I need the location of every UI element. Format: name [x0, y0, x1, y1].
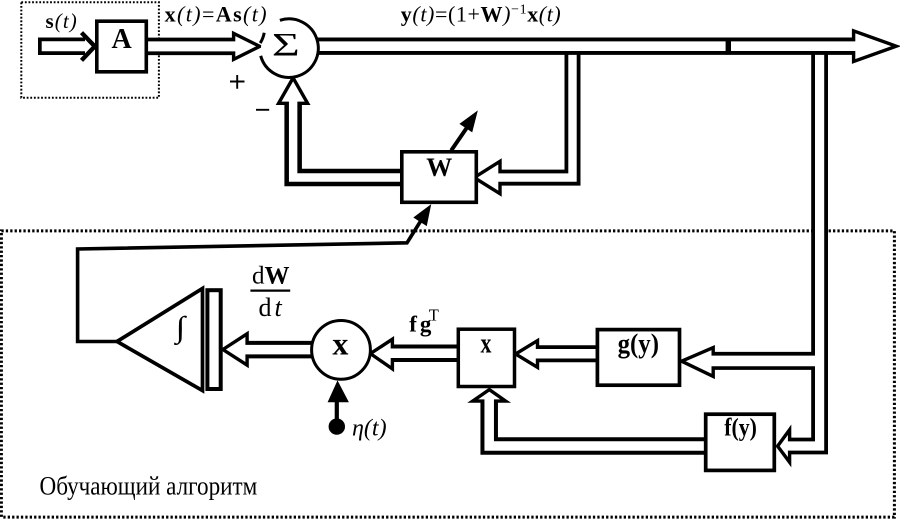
- svg-text:x: x: [481, 329, 492, 359]
- svg-text:η(t): η(t): [352, 416, 387, 442]
- thin line integrator to W: [78, 221, 421, 342]
- arrowhead main output right: [854, 31, 897, 62]
- wire x to multiplier band: [391, 345, 459, 363]
- channel branch to g(y): [708, 356, 824, 367]
- channel W to sum feedback: [293, 99, 403, 178]
- wire right branch down to f(y) band: [788, 50, 820, 446]
- channel branch down to W: [495, 55, 573, 178]
- fraction bar: [250, 290, 290, 292]
- svg-text:x(t)=As(t): x(t)=As(t): [165, 2, 268, 27]
- integrator triangle: [117, 288, 203, 390]
- arrowhead into W right side: [474, 161, 500, 193]
- svg-text:s(t): s(t): [46, 9, 78, 33]
- filled arrowhead of diagonal arrow: [460, 112, 477, 132]
- block A: [97, 21, 147, 72]
- channel x to multiplier: [387, 349, 459, 359]
- integrator output rect: [207, 290, 220, 389]
- W adaptation diagonal arrow: [451, 128, 467, 151]
- arrowhead into f(y) right side: [778, 430, 790, 463]
- block W: [402, 152, 477, 203]
- arrowhead into x box right side: [516, 341, 538, 368]
- arrowhead chevron into A: [82, 33, 95, 61]
- arrowhead into sum from below: [279, 78, 308, 103]
- eta noise stem: [335, 402, 339, 419]
- eta noise ball: [329, 418, 345, 434]
- channel f(y) to x bottom: [489, 396, 707, 447]
- svg-text:Обучающий алгоритм: Обучающий алгоритм: [40, 472, 258, 501]
- arrowhead into g(y) right side: [682, 348, 714, 377]
- channel s(t) input: [42, 41, 85, 51]
- wire A to sum band: [146, 38, 235, 56]
- svg-text:W: W: [426, 153, 452, 182]
- svg-text:f(y): f(y): [724, 414, 757, 442]
- svg-text:T: T: [429, 305, 439, 324]
- block f(y): [706, 414, 775, 470]
- arrowhead into integrator: [223, 334, 247, 365]
- filled arrowhead into multiplier bottom: [328, 380, 349, 402]
- wire s(t) input band: [38, 37, 85, 55]
- wire g(y) to x band: [536, 345, 598, 362]
- svg-text:A: A: [111, 24, 132, 55]
- arrowhead into x box bottom: [473, 390, 506, 402]
- svg-text:dW: dW: [252, 263, 290, 290]
- filled arrowhead into W bottom: [414, 205, 430, 225]
- svg-text:dt: dt: [259, 293, 285, 322]
- dotted box mixing system: [21, 2, 159, 98]
- channel right branch down to f(y): [784, 55, 820, 446]
- wire branch to g(y) band: [713, 352, 825, 370]
- channel A to sum: [146, 41, 241, 51]
- junction tick on main line: [726, 38, 731, 55]
- multiplier circle: [312, 321, 371, 380]
- svg-text:Σ: Σ: [272, 26, 300, 63]
- channel main output: [316, 41, 860, 51]
- arrowhead into sum from A: [234, 33, 260, 59]
- wire W to sum feedback band: [293, 104, 403, 178]
- minus sign: [256, 109, 269, 111]
- wire f(y) to x bottom band: [489, 400, 707, 446]
- wire multiplier to integrator band: [246, 341, 313, 359]
- wire branch down to W band: [500, 50, 573, 178]
- dotted box learning algorithm: [1, 231, 894, 517]
- block g(y): [597, 330, 679, 386]
- summation circle: [261, 20, 317, 76]
- wire main output band: [316, 38, 854, 55]
- svg-text:y(t)=(1+W)−1x(t): y(t)=(1+W)−1x(t): [401, 2, 562, 27]
- svg-text:x: x: [332, 326, 348, 362]
- block x (multiplier box): [458, 329, 514, 386]
- svg-text:g(y): g(y): [618, 329, 659, 359]
- arrowhead into multiplier right side: [370, 339, 392, 369]
- channel multiplier to integrator: [242, 345, 314, 355]
- channel g(y) to x: [532, 349, 599, 359]
- plus sign: [230, 75, 245, 89]
